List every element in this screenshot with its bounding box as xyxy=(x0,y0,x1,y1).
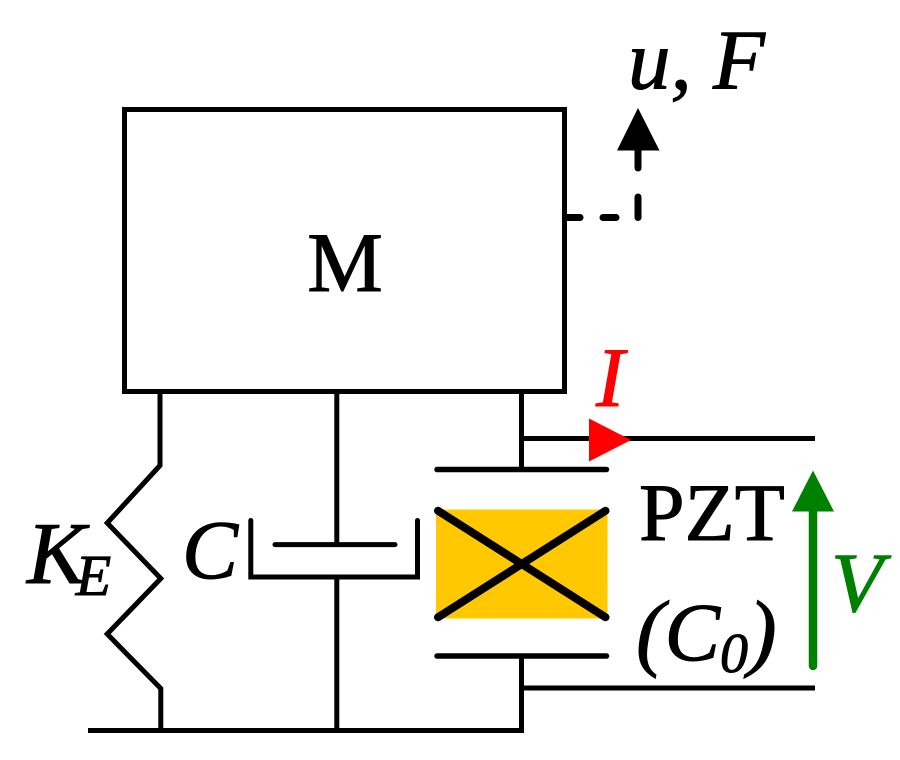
bottom ground wire xyxy=(88,728,524,733)
svg-text:(C0): (C0) xyxy=(636,583,777,685)
svg-text:KE: KE xyxy=(25,506,111,608)
PZT cross line 1 xyxy=(438,511,606,617)
voltage arrow V xyxy=(809,508,818,666)
top output wire xyxy=(522,436,816,441)
displacement dashed arrow xyxy=(567,151,638,218)
svg-text:C: C xyxy=(182,504,239,597)
PZT bottom vertical wire xyxy=(519,656,524,733)
svg-text:u, F: u, F xyxy=(628,14,766,108)
damper rod upper xyxy=(334,393,339,545)
damper rod lower xyxy=(334,577,339,731)
svg-text:M: M xyxy=(307,216,383,310)
PZT bottom electrode xyxy=(437,653,607,659)
damper piston plate xyxy=(275,542,395,547)
bottom output wire xyxy=(522,686,816,691)
svg-text:I: I xyxy=(595,331,628,425)
current arrowhead xyxy=(589,419,631,462)
mass M box xyxy=(125,110,565,392)
PZT body xyxy=(436,510,608,619)
PZT top vertical wire xyxy=(519,393,524,472)
PZT cross line 2 xyxy=(438,511,606,617)
PZT top electrode xyxy=(437,467,607,473)
svg-text:V: V xyxy=(831,536,892,630)
damper cup xyxy=(251,521,418,578)
spring KE xyxy=(107,393,161,731)
svg-text:PZT: PZT xyxy=(639,467,785,558)
